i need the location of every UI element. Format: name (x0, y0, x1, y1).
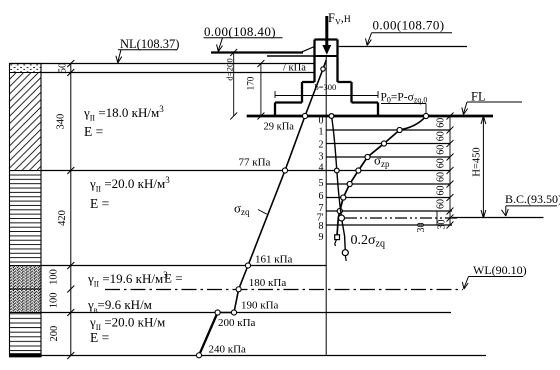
svg-text:3: 3 (319, 152, 324, 163)
numbered depth rows right of axis (326, 130, 452, 225)
svg-text:340: 340 (56, 114, 67, 130)
0.2 sigma_zq curve (332, 116, 346, 250)
centre axis line (325, 57, 327, 356)
b=300 dimension line (275, 91, 378, 98)
108.40 leader arrow (218, 38, 222, 51)
row numbers 0-9 (317, 116, 324, 244)
apron wedge (302, 47, 315, 52)
svg-text:60: 60 (436, 131, 447, 141)
svg-text:E =: E = (90, 196, 109, 211)
svg-text:B.C.(93.50): B.C.(93.50) (505, 192, 560, 206)
svg-text:9: 9 (319, 232, 324, 243)
borehole column: horizontal-lines layer (420) (10, 171, 42, 266)
H=450 dimension line (482, 116, 484, 218)
svg-text:WL(90.10): WL(90.10) (473, 263, 527, 277)
svg-text:100: 100 (49, 269, 60, 285)
svg-text:γII =20.0 кН/м3: γII =20.0 кН/м3 (89, 175, 170, 194)
borehole column outline (10, 64, 42, 357)
WL dash-dot water line (105, 289, 463, 291)
FL base thick line (247, 115, 493, 118)
svg-text:γв=9.6 кН/м: γв=9.6 кН/м (87, 297, 152, 315)
108.40 ground line (thick) (211, 51, 303, 53)
NL leader arrow (118, 50, 121, 62)
svg-text:161 кПа: 161 кПа (255, 254, 293, 266)
WL leader arrow (464, 277, 469, 289)
svg-text:NL(108.37): NL(108.37) (120, 37, 179, 51)
svg-text:60: 60 (436, 145, 447, 155)
svg-text:200: 200 (49, 326, 60, 342)
svg-text:0.00(108.40): 0.00(108.40) (204, 24, 276, 39)
sigma_zp tail (335, 240, 337, 247)
borehole column: topsoil layer (10, 64, 42, 73)
svg-text:240 кПа: 240 кПа (209, 344, 247, 356)
60 labels (436, 118, 447, 209)
borehole column: black base bar (10, 353, 42, 357)
left dimension line (70, 64, 72, 356)
apron bottom line (267, 55, 315, 57)
svg-text:200 кПа: 200 кПа (218, 317, 256, 329)
layer line 420-bottom (161 kPa level) (41, 265, 326, 267)
sigma_zq leader (258, 210, 267, 215)
svg-text:60: 60 (436, 172, 447, 182)
right dimension line for 60-intervals (449, 116, 451, 225)
sigma_zq polyline (218, 60, 327, 313)
layer line 340-bottom (77 kPa level) (41, 170, 326, 172)
d=200 dimension line (233, 53, 235, 117)
bottom layer line (240 kPa level) (41, 355, 486, 357)
FL leader arrow (464, 102, 468, 114)
svg-text:FL: FL (471, 90, 486, 104)
svg-text:d=200: d=200 (225, 58, 235, 81)
svg-text:E =: E = (90, 330, 109, 345)
borehole column: stipple layer (100 upper) (10, 266, 42, 290)
svg-text:30: 30 (416, 223, 427, 233)
topsoil bottom line (41, 72, 315, 74)
right dimension ticks (447, 113, 454, 229)
P0 leader (425, 104, 427, 114)
svg-text:γII =18.0 кН/м3: γII =18.0 кН/м3 (83, 104, 164, 123)
left dimension labels (rotated) (49, 63, 69, 342)
left dimension ticks (67, 60, 74, 359)
svg-text:420: 420 (57, 210, 68, 226)
svg-text:29 кПа: 29 кПа (264, 122, 295, 133)
svg-text:0: 0 (319, 116, 324, 127)
layer line at 190/200 kPa level (41, 312, 451, 314)
svg-text:/ кПа: / кПа (283, 63, 306, 74)
0.2 sigma_zq tail (344, 256, 347, 261)
B.C. leader arrow (505, 206, 507, 215)
svg-text:E =: E = (164, 271, 183, 286)
108.70 ground line (339, 46, 467, 48)
borehole column: diagonal-hatch layer (340) (10, 73, 42, 171)
svg-text:4: 4 (319, 163, 324, 174)
svg-text:E =: E = (84, 124, 103, 139)
B.C. dash-dot line at 7' (345, 217, 457, 219)
svg-text:180 кПа: 180 кПа (249, 277, 287, 289)
svg-text:60: 60 (436, 158, 447, 168)
0.2 sigma_zq markers (329, 114, 348, 256)
30 dim line inner (436, 211, 438, 225)
svg-text:100: 100 (49, 293, 60, 309)
column joint line (315, 55, 338, 57)
svg-text:50: 50 (58, 63, 69, 74)
borehole internal boundary lines (10, 73, 42, 313)
svg-text:30: 30 (437, 220, 448, 230)
svg-text:5: 5 (319, 178, 324, 189)
svg-text:170: 170 (246, 76, 256, 90)
force arrow (thick, filled head) (325, 16, 328, 46)
svg-text:H=450: H=450 (472, 147, 483, 176)
sigma_zp curve (337, 116, 426, 237)
svg-text:60: 60 (436, 186, 447, 196)
sigma_zp markers (335, 113, 429, 239)
svg-text:6: 6 (319, 191, 324, 202)
svg-text:0.00(108.70): 0.00(108.70) (373, 18, 445, 33)
borehole column: stipple layer (100 lower) (10, 289, 42, 313)
B.C. level line (452, 217, 544, 219)
svg-text:1: 1 (319, 127, 324, 138)
108.70 leader arrow (367, 33, 371, 45)
170 dimension line (260, 64, 262, 117)
svg-text:190 кПа: 190 кПа (241, 300, 279, 312)
svg-text:2: 2 (319, 140, 324, 151)
footing outline (thick) (275, 40, 378, 117)
NL ground line (10, 63, 315, 65)
sigma_zq markers (196, 67, 325, 358)
svg-text:60: 60 (436, 118, 447, 128)
borehole column: horizontal-lines layer (200) (10, 313, 42, 354)
svg-text:γII =19.6 кН/м3: γII =19.6 кН/м3 (87, 270, 168, 289)
sigma_zq bottom thick segment (199, 313, 218, 356)
svg-text:77 кПа: 77 кПа (239, 157, 271, 169)
svg-text:60: 60 (436, 199, 447, 209)
svg-text:8: 8 (319, 221, 324, 232)
